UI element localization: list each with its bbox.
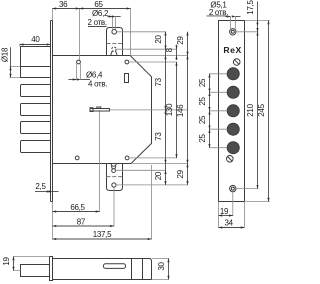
svg-text:25: 25 [198, 134, 207, 143]
svg-text:73: 73 [154, 77, 163, 86]
svg-text:65: 65 [94, 0, 103, 9]
svg-text:130: 130 [165, 103, 174, 116]
svg-text:34: 34 [224, 218, 233, 227]
svg-text:Ø6,4: Ø6,4 [86, 71, 103, 80]
svg-text:29: 29 [176, 36, 185, 45]
svg-text:ReX: ReX [223, 45, 242, 55]
svg-text:2 отв.: 2 отв. [88, 18, 107, 27]
svg-text:29: 29 [176, 169, 185, 178]
svg-text:20: 20 [154, 171, 163, 180]
svg-text:19: 19 [220, 207, 229, 216]
svg-text:2 отв.: 2 отв. [209, 8, 228, 17]
svg-text:25: 25 [198, 97, 207, 106]
svg-text:19: 19 [2, 257, 11, 266]
svg-text:2,5: 2,5 [35, 182, 46, 191]
svg-text:17,5: 17,5 [246, 0, 255, 15]
svg-text:66,5: 66,5 [70, 203, 85, 212]
svg-text:4 отв.: 4 отв. [88, 80, 107, 89]
svg-text:73: 73 [154, 132, 163, 141]
svg-text:Ø18: Ø18 [0, 47, 9, 62]
svg-text:40: 40 [31, 35, 40, 44]
svg-text:8: 8 [165, 47, 174, 52]
svg-text:25: 25 [198, 78, 207, 87]
svg-text:137,5: 137,5 [93, 230, 112, 239]
svg-text:36: 36 [59, 0, 68, 9]
svg-text:30: 30 [157, 262, 166, 271]
svg-text:210: 210 [246, 103, 255, 116]
svg-text:146: 146 [176, 104, 185, 117]
svg-text:87: 87 [77, 218, 86, 227]
svg-text:20: 20 [154, 35, 163, 44]
svg-text:25: 25 [198, 115, 207, 124]
svg-text:245: 245 [257, 103, 266, 116]
svg-text:Ø6,2: Ø6,2 [92, 9, 109, 18]
